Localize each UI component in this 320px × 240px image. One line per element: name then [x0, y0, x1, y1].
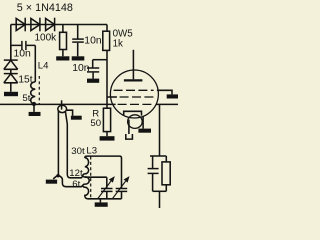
- diode D2: [31, 18, 40, 32]
- ground under C1: [72, 56, 85, 60]
- wire C3 to L4: [34, 45, 36, 82]
- svg-text:10n: 10n: [84, 35, 102, 46]
- svg-text:6t: 6t: [72, 179, 80, 190]
- label 6t: [72, 179, 80, 190]
- capacitor C3 10n: [14, 41, 32, 60]
- grid g3 dashes (rail): [118, 103, 154, 105]
- label L3: [86, 145, 97, 156]
- wire R50 to ground: [106, 132, 108, 137]
- cathode: [124, 111, 142, 115]
- wire rail to RC block: [159, 104, 161, 156]
- svg-text:10n: 10n: [14, 49, 32, 60]
- node L4/rail junction: [32, 102, 36, 106]
- svg-text:5 × 1N4148: 5 × 1N4148: [17, 2, 73, 14]
- heater circle: [128, 115, 143, 129]
- wire g1 to ground right: [157, 90, 172, 94]
- label 15t: [18, 74, 32, 85]
- variable capacitor VC1 stem/wire from tap A: [85, 177, 107, 199]
- svg-text:L3: L3: [86, 145, 97, 156]
- label 5 x 1N4148: [17, 2, 73, 14]
- resistor R 50: [90, 108, 110, 131]
- resistor 100k: [35, 32, 67, 49]
- wire R2 bottom: [165, 185, 167, 192]
- diode D1: [16, 18, 25, 32]
- capacitor C1 10n drop wire: [77, 25, 79, 39]
- wire tank bottom: [88, 198, 122, 200]
- heater terminal fork: [126, 134, 133, 139]
- ground under R50: [100, 136, 115, 140]
- svg-text:12t: 12t: [69, 168, 83, 179]
- wire L3 top to VC2: [85, 156, 122, 188]
- diode D3: [46, 18, 55, 32]
- wire C1 to ground: [77, 43, 79, 57]
- svg-text:30t: 30t: [71, 146, 85, 157]
- wire 1k down to grid/R: [106, 50, 108, 104]
- capacitor C2 10n stem: [92, 60, 94, 68]
- heater lead to ground: [142, 116, 144, 128]
- label 30t: [71, 146, 85, 157]
- capacitor C1 10n: [72, 35, 102, 46]
- wire RC bottom bar: [153, 190, 167, 192]
- wire RC top bar: [150, 155, 166, 157]
- resistor 100k drop wire: [62, 25, 64, 33]
- resistor R 50 stem: [106, 104, 108, 108]
- wire 100k to ground: [62, 50, 64, 57]
- pin of J1: [61, 100, 63, 109]
- wire g2 stub: [107, 96, 117, 98]
- label 5t: [22, 93, 30, 104]
- node link ground junction: [56, 174, 59, 177]
- inductor L3: [83, 158, 89, 199]
- wire RC to bottom edge: [159, 191, 161, 208]
- ground under heater: [138, 129, 151, 133]
- svg-text:50: 50: [90, 118, 101, 129]
- wire link right to tap A: [65, 112, 83, 178]
- resistor 1k 0W5: [103, 29, 133, 51]
- core of L4: [38, 76, 40, 104]
- ground under C2: [87, 79, 99, 83]
- diode D6: [4, 69, 18, 83]
- grid g1 dashes: [114, 89, 154, 91]
- ground under diodes: [4, 92, 18, 96]
- wire capB junction: [93, 59, 107, 61]
- svg-text:100k: 100k: [35, 33, 58, 44]
- svg-text:L4: L4: [38, 61, 49, 72]
- label 12t: [69, 168, 83, 179]
- wire junction to ground: [33, 104, 35, 112]
- label L4: [38, 61, 49, 72]
- wire corner to resistor 1k: [106, 25, 108, 32]
- wire link left: [53, 111, 58, 179]
- ground under 100k: [56, 56, 69, 60]
- wire ground to tap B: [58, 175, 83, 186]
- ground at link: [46, 180, 57, 184]
- ground at J1: [71, 116, 82, 120]
- connector J1 circle: [58, 105, 67, 112]
- wire left vertical: [10, 25, 12, 61]
- svg-text:10n: 10n: [72, 63, 90, 74]
- wire C4 bottom: [152, 174, 154, 191]
- ground under L4 junction: [29, 112, 41, 116]
- grid g2 dashes: [120, 96, 154, 98]
- anode plate: [124, 79, 142, 81]
- core of L3: [90, 157, 92, 199]
- wire tank bottom to ground: [99, 199, 101, 203]
- resistor R2: [162, 162, 170, 185]
- wire C2 to ground: [92, 73, 94, 79]
- variable capacitor VC1: [98, 176, 115, 198]
- ground under tank: [95, 202, 108, 206]
- diode D5: [4, 45, 18, 69]
- inductor L4: [31, 82, 36, 104]
- ground at g1: [167, 94, 178, 98]
- capacitor C2 10n: [72, 63, 99, 74]
- capacitor C4: [148, 169, 159, 174]
- wire J1 to ground: [67, 110, 73, 116]
- svg-text:5t: 5t: [22, 93, 30, 104]
- capacitor C3 10n horizontal wire left: [11, 44, 36, 46]
- variable capacitor VC2: [113, 176, 130, 199]
- anode lead: [132, 50, 134, 80]
- tube V1 envelope: [110, 70, 158, 118]
- svg-text:1k: 1k: [113, 39, 123, 50]
- resistor R2 stem: [165, 156, 167, 162]
- heater lead to terminal: [128, 120, 130, 134]
- wire top rail: [11, 24, 107, 26]
- capacitor C4 stem: [152, 156, 154, 168]
- wire diode to ground: [10, 83, 12, 92]
- wire main rail: [0, 103, 178, 105]
